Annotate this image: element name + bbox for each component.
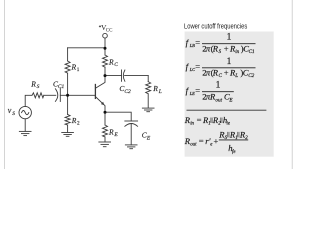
svg-text:S: S [37, 84, 40, 90]
wire: vS top lead and input rail to RS [25, 95, 32, 106]
svg-text:E: E [113, 132, 118, 138]
node B: VCC rail junction dot [104, 47, 107, 50]
wire RL to ground [147, 94, 149, 108]
svg-text:=: = [197, 115, 202, 125]
resistor RL zigzag [146, 82, 151, 94]
formula fLB [186, 33, 255, 56]
wire node to R2 [67, 95, 69, 114]
svg-text:+: + [224, 67, 229, 77]
transistor Q1 collector lead [95, 76, 105, 89]
formula fLE [186, 81, 234, 104]
ground (RE) [98, 142, 111, 147]
node D: emitter junction dot [104, 111, 107, 114]
svg-text:L: L [158, 89, 162, 95]
svg-text:C2: C2 [124, 89, 131, 95]
page border left [4, 0, 6, 169]
svg-text:CC: CC [106, 29, 113, 34]
svg-text:1: 1 [77, 67, 80, 73]
ground (CE) [125, 145, 138, 149]
capacitor CE straight plate [125, 120, 138, 122]
svg-text:1: 1 [227, 57, 232, 67]
svg-text:out: out [190, 142, 197, 147]
svg-text:LE: LE [189, 91, 195, 96]
page border right [291, 0, 293, 169]
svg-text:R: R [71, 116, 77, 125]
svg-text:C1: C1 [249, 49, 255, 55]
capacitor CC1 straight plate [59, 89, 61, 102]
label CC2 [119, 84, 131, 95]
svg-text:C: C [114, 62, 118, 68]
transistor Q1 base bar [94, 85, 96, 99]
formula Rin [184, 115, 211, 127]
VCC terminal circle [103, 33, 108, 38]
wire vS bottom lead [24, 119, 26, 132]
resistor R2 zigzag [65, 114, 70, 125]
formula Rout [184, 129, 228, 147]
capacitor CC1 curved plate [55, 89, 57, 102]
label RS [30, 79, 39, 90]
svg-text:2: 2 [77, 120, 80, 126]
wire emitter node to RE [104, 112, 106, 125]
separator line [187, 109, 267, 111]
svg-text:S: S [219, 49, 222, 55]
svg-text:v: v [8, 106, 12, 115]
ground (vS) [19, 131, 32, 135]
wire CC2 to RL [125, 75, 149, 77]
fraction bar fLC [202, 67, 256, 69]
wire CC1 to base (through node) [60, 94, 95, 96]
wire R1R2 top rail [68, 47, 105, 49]
svg-text:=: = [195, 37, 200, 47]
wire R1 top lead [67, 48, 69, 61]
resistor RE zigzag [103, 125, 108, 137]
label R2 [71, 116, 80, 127]
ground (RL) [142, 108, 155, 112]
capacitor CC2 straight plate [121, 70, 123, 81]
svg-text:in: in [190, 122, 194, 127]
transistor Q1 emitter arrow [101, 102, 104, 105]
label CE [142, 131, 151, 142]
svg-text:C: C [219, 73, 223, 79]
svg-text:+: + [224, 43, 229, 53]
node A: base junction dot [66, 94, 69, 97]
label vS [8, 106, 16, 117]
formula fLC [186, 57, 255, 79]
label RC [108, 57, 118, 68]
wire CE to ground [130, 124, 132, 145]
ground (R2) [61, 133, 74, 137]
svg-text:R: R [108, 57, 114, 66]
svg-text:+: + [214, 136, 219, 146]
transistor Q1 emitter lead [95, 97, 105, 113]
wire R1 bottom lead to node [67, 73, 69, 95]
capacitor CE curved plate [125, 124, 138, 127]
svg-text:C2: C2 [248, 73, 254, 79]
svg-text:1: 1 [216, 81, 221, 91]
fraction bar Rout [219, 139, 248, 141]
svg-text:in: in [235, 49, 239, 55]
svg-text:C1: C1 [58, 84, 65, 90]
wire R2 to ground [67, 125, 69, 132]
svg-text:R: R [30, 79, 36, 88]
fraction bar fLB [202, 43, 256, 45]
svg-text:S: S [12, 111, 15, 117]
svg-text:Lower cutoff frequencies: Lower cutoff frequencies [184, 23, 247, 31]
svg-text:LC: LC [189, 67, 195, 72]
source vS sine wave [22, 111, 29, 115]
svg-text:out: out [215, 97, 222, 103]
resistor R1 zigzag [65, 61, 70, 73]
label RE [108, 127, 118, 138]
wire RL top lead [147, 76, 149, 82]
svg-text:1: 1 [227, 33, 232, 43]
wire collector node to CC2 [105, 75, 122, 77]
svg-text:=: = [199, 136, 204, 146]
svg-text:R: R [152, 84, 158, 93]
svg-text:1: 1 [208, 122, 210, 127]
wire RC to collector node [104, 67, 106, 75]
svg-text:L: L [234, 73, 238, 79]
wire VCC lead down [104, 38, 106, 55]
wire RE to ground [104, 137, 106, 142]
svg-text:=: = [195, 62, 200, 72]
fraction bar fLE [202, 91, 234, 93]
capacitor CC2 curved plate [123, 70, 125, 81]
label +VCC [99, 23, 113, 34]
label RL [152, 84, 162, 95]
wire RS to CC1 [44, 94, 56, 96]
label CC1 [53, 79, 65, 90]
svg-text:E: E [146, 135, 151, 141]
resistor RC zigzag [103, 55, 108, 67]
wire emitter node to CE [105, 112, 131, 121]
resistor RS zigzag [32, 93, 44, 98]
source vS circle [19, 106, 31, 118]
node C: collector junction dot [104, 74, 107, 77]
label R1 [71, 62, 80, 73]
svg-text:LB: LB [189, 43, 195, 48]
formula panel background [185, 32, 274, 157]
svg-text:R: R [71, 62, 77, 71]
svg-text:R: R [108, 127, 114, 136]
svg-text:=: = [195, 85, 200, 95]
